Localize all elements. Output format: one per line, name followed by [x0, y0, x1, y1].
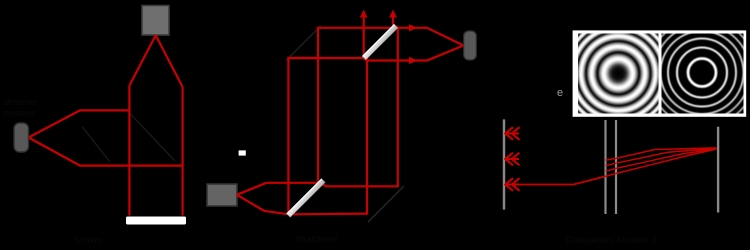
viewing ray upper	[29, 110, 130, 137]
detector eye	[464, 31, 477, 60]
mirror M1 (top-left, dark)	[286, 26, 321, 61]
arrow right upper	[409, 24, 418, 31]
small white marker rect	[239, 150, 246, 155]
beam: laser divergence upper	[237, 183, 267, 195]
beam: reflected at BS1 up left arm (outer)	[288, 58, 318, 214]
beam: lower edge through BS1 to corner M2, then up	[264, 16, 367, 214]
transmitted fan converging to focus	[616, 148, 717, 174]
beam: lower left-arm horizontal to BS2 and out to detector	[289, 46, 463, 61]
glass plate 2	[615, 120, 617, 214]
svg-text:Strahlteiler: Strahlteiler	[295, 234, 338, 244]
beam edge vertical right	[182, 87, 184, 216]
screen plane right	[717, 127, 719, 213]
screen (white bar)	[126, 217, 186, 225]
svg-text:Schirm: Schirm	[74, 235, 102, 245]
chevron arrow 2	[505, 153, 519, 166]
white panel	[573, 30, 747, 116]
viewing ray lower	[29, 138, 183, 166]
mirror M2 (bottom-right, dark)	[368, 186, 404, 222]
svg-text:Glasplatten, Abstand d: Glasplatten, Abstand d	[566, 235, 657, 245]
fringe pattern left (two-beam rings)	[578, 34, 659, 114]
beam edge vertical left	[128, 86, 130, 216]
faint virtual ray 1	[83, 127, 110, 162]
fringe pattern right (Fabry-Perot rings)	[643, 13, 750, 132]
chevron arrow 3 with ray	[505, 178, 519, 191]
beam: laser divergence lower	[237, 195, 264, 211]
chevron arrow 1	[505, 127, 519, 140]
diverging ray right	[156, 35, 183, 87]
beam: upper edge through BS1 to corner M2, then up	[267, 16, 398, 186]
svg-text:e: e	[557, 87, 563, 99]
diverging ray left	[129, 35, 155, 85]
arrow right lower	[409, 57, 418, 64]
laser source box	[207, 184, 237, 206]
beam splitter BS1	[287, 179, 326, 218]
beam: reflected at BS1 up inner, corner to BS2 top	[318, 28, 464, 183]
arrow up right	[389, 10, 397, 18]
glass plate 1	[604, 120, 606, 214]
arrow up left	[360, 10, 368, 18]
screen plane left	[503, 119, 505, 209]
incoming ray	[517, 176, 606, 184]
svg-text:observer: observer	[3, 97, 38, 107]
eye of observer	[14, 123, 29, 152]
svg-text:position: position	[3, 108, 34, 118]
faint virtual ray 2	[131, 114, 176, 161]
internal reflected rays	[606, 158, 616, 176]
beam splitter BS2	[362, 24, 398, 60]
lamp source S	[142, 6, 169, 36]
